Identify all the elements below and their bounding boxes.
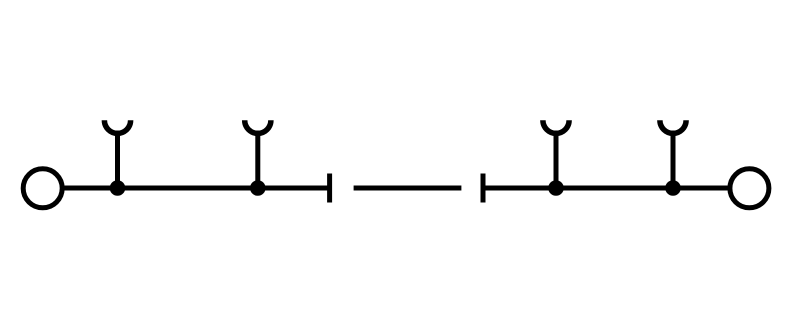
clamp fork 1 [104,120,130,188]
junction dot 1 [110,180,126,196]
clamp fork 4 [660,120,686,188]
junction dot 3 [548,180,564,196]
junction dot 2 [250,180,266,196]
wire right segment [483,186,730,191]
clamp fork 2 [245,120,271,188]
disconnect link bar [354,186,462,191]
junction dot 4 [665,180,681,196]
terminal circle right [730,169,769,208]
wire left segment [64,186,330,191]
disconnect contact bar right [481,174,486,203]
clamp fork 3 [543,120,569,188]
disconnect contact bar left [327,174,332,203]
terminal circle left [23,169,62,208]
